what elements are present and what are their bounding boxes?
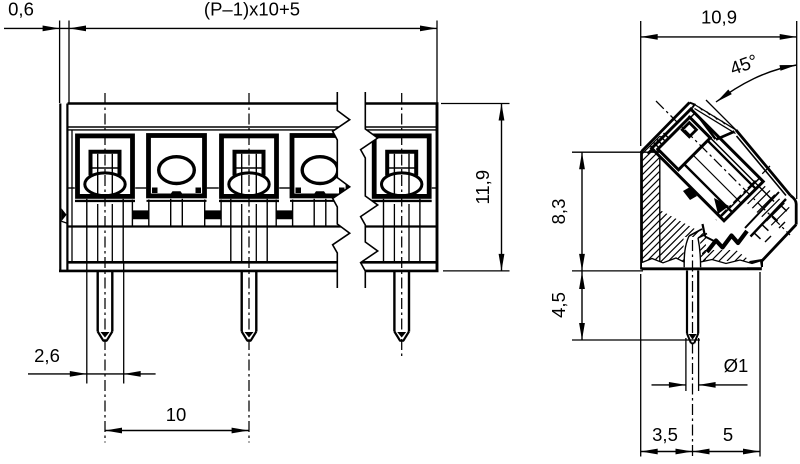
svg-text:0,6: 0,6 [8,0,34,20]
svg-text:(P–1)x10+5: (P–1)x10+5 [204,0,300,20]
svg-text:8,3: 8,3 [548,199,569,225]
svg-text:10,9: 10,9 [701,7,737,28]
svg-text:Ø1: Ø1 [724,355,749,376]
svg-text:5: 5 [723,424,733,445]
svg-text:11,9: 11,9 [472,170,493,205]
svg-text:3,5: 3,5 [652,424,678,445]
svg-text:4,5: 4,5 [548,292,569,318]
svg-text:10: 10 [166,404,187,425]
svg-text:2,6: 2,6 [34,345,60,366]
